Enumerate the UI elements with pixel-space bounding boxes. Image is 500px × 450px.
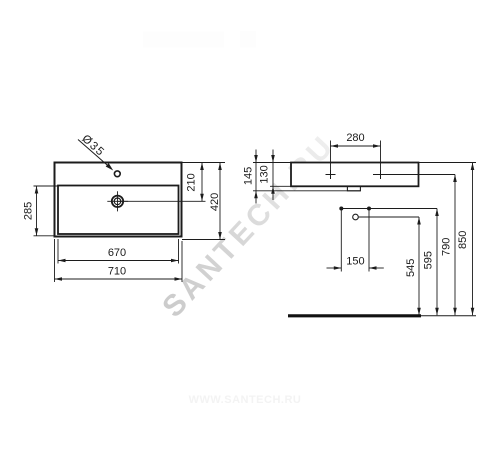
svg-text:150: 150 (346, 256, 364, 268)
dim 285 extension bottom (34, 235, 55, 237)
left extension top edge (253, 162, 291, 164)
drain inner circle (114, 198, 121, 205)
drain outer circle (112, 196, 123, 207)
dim 850 line (472, 163, 474, 316)
dim 130 line (272, 150, 274, 201)
svg-text:210: 210 (186, 173, 198, 191)
label O35 (79, 133, 107, 159)
dim 595 line (436, 209, 438, 316)
dim 710 line (55, 278, 183, 280)
dim 670 line (58, 260, 179, 262)
left extension 145 bottom (253, 190, 360, 192)
left extension 130 bottom (270, 185, 291, 187)
svg-text:420: 420 (209, 193, 221, 211)
label 285 (23, 202, 35, 220)
svg-text:670: 670 (108, 247, 126, 259)
faint watermark remnant blocks top (143, 32, 224, 48)
drain boss lip (347, 186, 360, 191)
dim 285 line (36, 186, 38, 236)
template left vertical (340, 209, 342, 272)
label 130 (259, 165, 271, 183)
label 420 (209, 193, 221, 211)
drain hole front (353, 214, 359, 220)
label 210 (186, 173, 198, 191)
svg-text:545: 545 (405, 259, 417, 277)
svg-text:285: 285 (23, 202, 35, 220)
floor line thick (288, 314, 421, 317)
faucet hole (114, 171, 120, 177)
dim 545 line (418, 217, 420, 315)
mounting holes extension to 790 (373, 174, 455, 176)
svg-text:130: 130 (259, 165, 271, 183)
floor line thin (421, 315, 476, 317)
svg-text:595: 595 (423, 251, 435, 269)
dim 150 line right part (369, 267, 384, 269)
dim 280 line (331, 145, 381, 147)
top edge extension to 850 (419, 162, 477, 164)
dim 285 extension top (34, 185, 59, 187)
svg-text:145: 145 (243, 167, 255, 185)
label 790 (441, 238, 453, 256)
node dot left (339, 207, 343, 211)
template right vertical (368, 209, 370, 272)
drain centerline horizontal (107, 200, 128, 202)
svg-text:710: 710 (108, 266, 126, 278)
drain hole extension to 545 (359, 216, 419, 218)
drain extension line to 210 dim (118, 200, 206, 202)
bottom edge extension right (182, 239, 225, 241)
label 545 (405, 259, 417, 277)
dim 145 line (255, 150, 257, 204)
top edge extension right (182, 162, 226, 164)
basin outer rect (55, 163, 182, 237)
basin inner rect (58, 186, 179, 235)
drain centerline vertical (117, 191, 119, 211)
svg-text:280: 280 (346, 132, 364, 144)
svg-text:850: 850 (457, 231, 469, 249)
label 850 (457, 231, 469, 249)
svg-text:790: 790 (441, 238, 453, 256)
dim 210 line (201, 163, 203, 202)
dim 420 line (219, 163, 221, 240)
leader line O35 (78, 140, 110, 168)
svg-text:WWW.SANTECH.RU: WWW.SANTECH.RU (189, 394, 302, 406)
extension outer-right down (181, 241, 183, 282)
extension outer-left down (54, 239, 56, 282)
dim 790 line (454, 175, 456, 316)
extension inner-left down (57, 239, 59, 264)
watermark SANTECH.RU diagonal (156, 128, 342, 324)
template top line with dots (341, 208, 437, 210)
node dot right (367, 207, 371, 211)
mounting hole left (330, 170, 332, 179)
dim 280 extensions (330, 141, 332, 171)
label 145 (243, 167, 255, 185)
basin front profile (291, 163, 419, 187)
extension inner-right down (178, 239, 180, 264)
mounting hole right (380, 170, 382, 179)
label 595 (423, 251, 435, 269)
dim 150 line left part (327, 267, 342, 269)
